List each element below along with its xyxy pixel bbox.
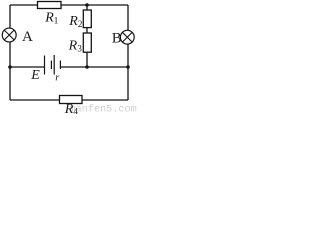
svg-text:R: R <box>44 10 54 25</box>
svg-text:3: 3 <box>77 43 82 53</box>
node junction right battery <box>126 65 130 69</box>
lamp A <box>2 28 16 42</box>
svg-text:R: R <box>68 38 78 53</box>
svg-text:R: R <box>64 102 74 114</box>
node junction branch bottom <box>85 65 89 69</box>
resistor R1 <box>38 2 62 9</box>
node junction top branch <box>85 3 89 7</box>
resistor R3 <box>83 33 91 52</box>
svg-text:R: R <box>68 14 78 29</box>
lamp B <box>120 30 134 44</box>
wire top <box>10 4 128 6</box>
resistor R4 <box>60 96 83 104</box>
wire bottom <box>10 99 128 101</box>
wire middle left (to battery) <box>10 66 44 68</box>
svg-text:4: 4 <box>73 107 78 115</box>
wire right <box>127 5 129 100</box>
svg-text:2: 2 <box>78 19 83 29</box>
wire middle right (battery to right wire) <box>60 66 128 68</box>
wire middle branch vertical <box>86 5 88 67</box>
wire left <box>9 5 11 100</box>
svg-text:1: 1 <box>54 16 59 26</box>
svg-text:A: A <box>22 29 33 45</box>
svg-text:E: E <box>30 68 40 83</box>
battery E (plates) <box>44 56 46 75</box>
svg-text:manfen5.com: manfen5.com <box>70 104 137 115</box>
resistor R2 <box>83 10 91 28</box>
node junction left battery <box>8 65 12 69</box>
svg-text:B: B <box>112 31 122 47</box>
